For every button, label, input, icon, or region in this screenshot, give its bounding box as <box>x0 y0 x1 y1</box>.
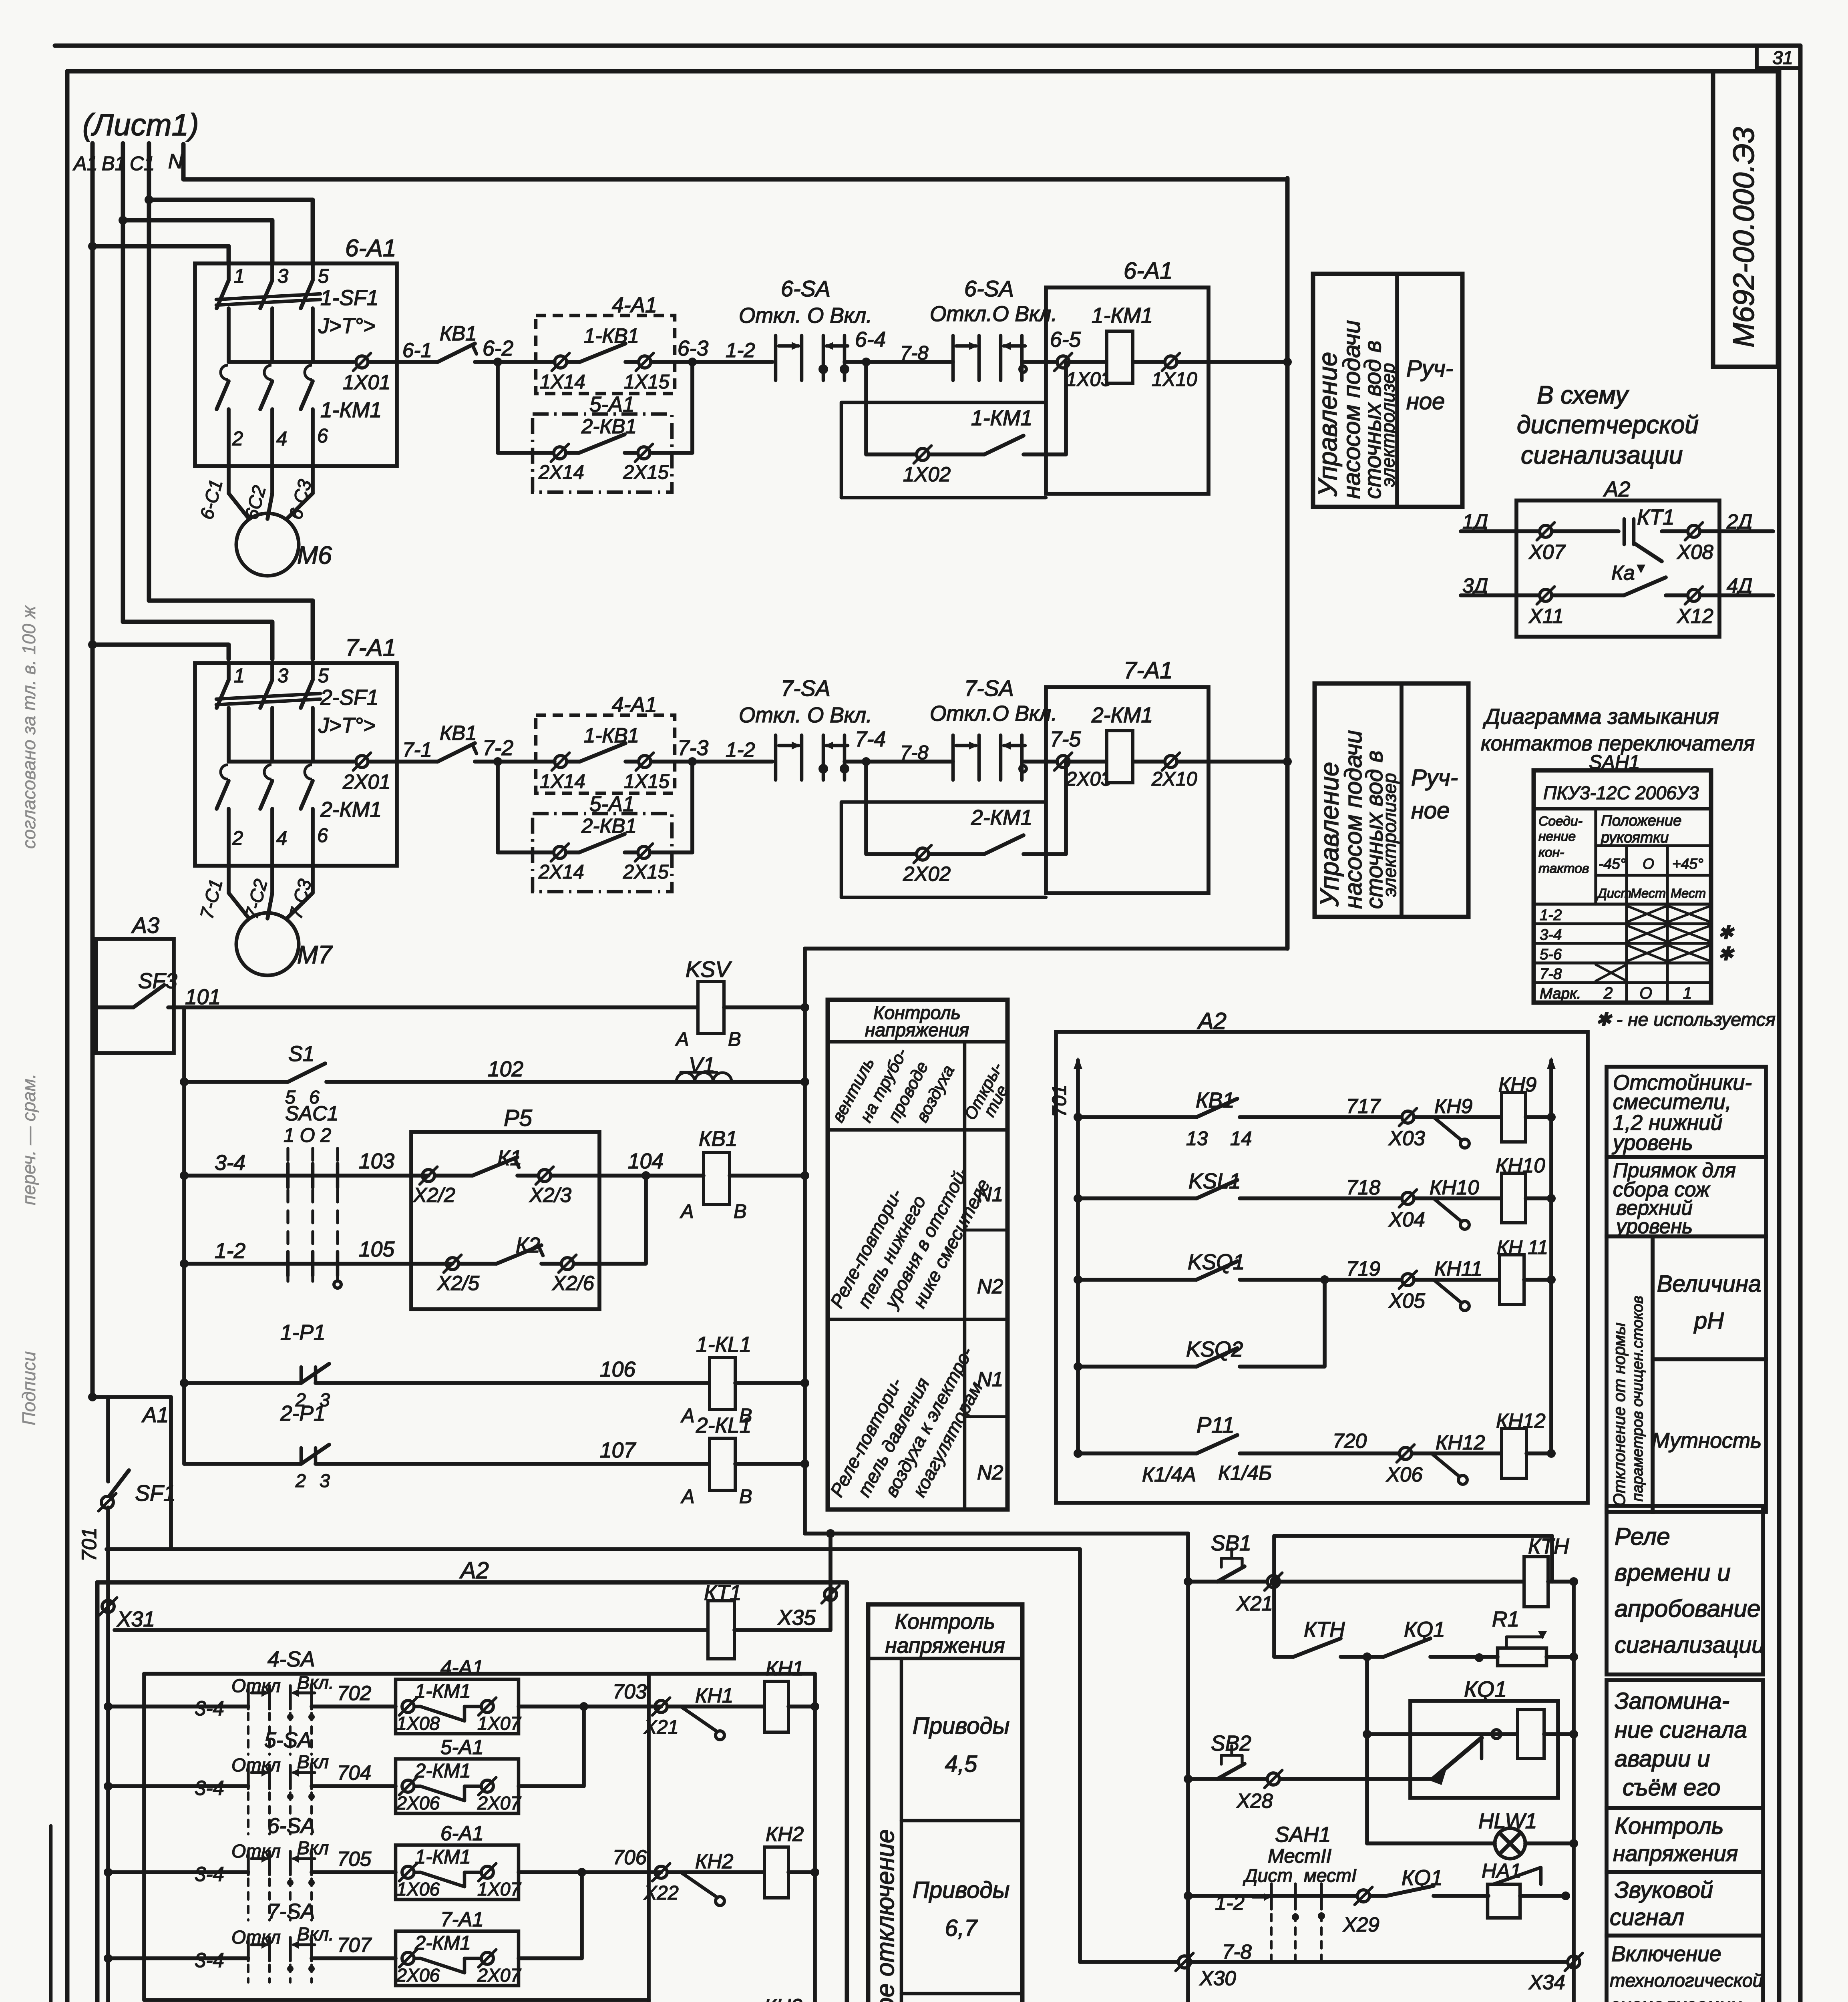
svg-text:6: 6 <box>317 825 328 846</box>
svg-text:102: 102 <box>488 1057 523 1081</box>
circuit breaker block 7-А1 <box>195 663 397 866</box>
feed A1 to 7-A1 <box>88 640 97 649</box>
terminal 2X10 <box>1165 756 1177 768</box>
svg-text:4: 4 <box>276 828 287 849</box>
info box zvukovoi signal <box>1607 1872 1763 1936</box>
svg-text:Х07: Х07 <box>1528 541 1566 563</box>
wire 106 with contact 1-P1 <box>180 1379 189 1387</box>
svg-text:719: 719 <box>1346 1257 1380 1280</box>
relay column enclosure <box>647 2000 651 2002</box>
bus C1 vertical <box>147 143 151 601</box>
svg-text:Х31: Х31 <box>116 1608 155 1631</box>
voltage control table lower <box>868 1604 1022 2002</box>
svg-text:ШМС: ШМС <box>1522 2000 1577 2002</box>
svg-text:5-SA: 5-SA <box>264 1729 312 1752</box>
svg-text:6-SA: 6-SA <box>781 276 830 301</box>
svg-text:2-Р1: 2-Р1 <box>280 1402 326 1425</box>
svg-text:N2: N2 <box>977 1275 1003 1298</box>
junction B1 to 6-A1 <box>119 216 127 225</box>
svg-text:1-КМ1: 1-КМ1 <box>1092 304 1153 328</box>
selector 4-SA and contact 4-A1 row 702 <box>104 1702 113 1711</box>
svg-text:7-А1: 7-А1 <box>1124 657 1173 683</box>
svg-text:Дист: Дист <box>1243 1865 1293 1886</box>
selector 5-SA and contact 5-A1 row 704 <box>104 1782 113 1791</box>
svg-text:2-КМ1: 2-КМ1 <box>320 798 382 822</box>
contact KSQ1 row 719 <box>1074 1275 1082 1284</box>
svg-text:местI: местI <box>1304 1865 1357 1886</box>
contactor 1-КМ1 main contacts <box>221 365 228 380</box>
svg-text:1: 1 <box>234 265 245 287</box>
svg-text:702: 702 <box>337 1682 371 1705</box>
svg-text:1-2: 1-2 <box>215 1239 245 1263</box>
svg-text:7-8: 7-8 <box>900 742 928 764</box>
svg-text:К1: К1 <box>497 1146 522 1170</box>
svg-text:2-КВ1: 2-КВ1 <box>581 814 637 837</box>
svg-text:А3: А3 <box>131 913 159 938</box>
svg-text:А: А <box>680 1201 694 1222</box>
svg-text:3-4: 3-4 <box>195 1949 224 1972</box>
breaker 1-SF1 <box>227 263 231 280</box>
wire 105 <box>180 1259 189 1268</box>
sheet number box 31 <box>1757 46 1800 68</box>
svg-text:2-КL1: 2-КL1 <box>696 1414 751 1437</box>
svg-text:4-А1: 4-А1 <box>612 693 657 717</box>
svg-text:КQ1: КQ1 <box>1404 1618 1445 1642</box>
wire 704 joins 703 <box>519 1707 584 1786</box>
svg-text:сигнализации: сигнализации <box>1521 441 1683 469</box>
svg-text:КН11: КН11 <box>1434 1257 1482 1280</box>
svg-text:Х11: Х11 <box>1528 605 1564 627</box>
svg-text:6-А1: 6-А1 <box>345 234 396 261</box>
ladder left rail <box>182 1007 186 1464</box>
svg-text:107: 107 <box>600 1439 636 1462</box>
svg-text:6: 6 <box>317 425 328 447</box>
motor М6 <box>236 513 299 576</box>
wire 7-1 with terminal 2X01 <box>229 760 354 764</box>
breaker 2-SF1 <box>227 663 231 680</box>
info column otklonenie ot normy <box>1607 1236 1653 1512</box>
svg-text:Руч-: Руч- <box>1411 765 1458 791</box>
svg-text:SAC1: SAC1 <box>285 1102 338 1125</box>
terminal X31 <box>102 1600 114 1612</box>
svg-text:706: 706 <box>613 1846 647 1869</box>
svg-text:МестII: МестII <box>1268 1845 1331 1867</box>
self-holding contact 1-КМ1 <box>866 362 915 454</box>
svg-text:КQ1: КQ1 <box>1464 1677 1507 1702</box>
svg-text:2Х06: 2Х06 <box>396 1965 440 1986</box>
wire 105 to node 104 <box>599 1176 646 1264</box>
svg-text:1X14: 1X14 <box>540 371 585 393</box>
svg-text:5: 5 <box>318 265 329 287</box>
svg-text:технологической: технологической <box>1610 1970 1763 1991</box>
svg-text:7-SA: 7-SA <box>267 1900 315 1924</box>
contactor coil 2-КМ1 <box>1107 731 1133 783</box>
relay block P5 <box>411 1132 599 1309</box>
svg-text:705: 705 <box>337 1847 372 1870</box>
svg-text:А: А <box>680 1405 695 1427</box>
svg-text:1Х07: 1Х07 <box>477 1879 522 1899</box>
svg-text:1X15: 1X15 <box>624 371 670 393</box>
svg-text:М692-00.000.Э3: М692-00.000.Э3 <box>1727 127 1760 348</box>
svg-text:Вкл.: Вкл. <box>297 1672 334 1693</box>
svg-text:5-6: 5-6 <box>1540 946 1562 963</box>
svg-text:1X14: 1X14 <box>540 771 585 792</box>
svg-text:КН9: КН9 <box>1434 1095 1472 1118</box>
contactor 2-КМ1 main contacts <box>221 765 228 779</box>
svg-text:KSV: KSV <box>686 957 732 982</box>
panel A1 outline with SF1 <box>88 1393 97 1401</box>
svg-text:SF3: SF3 <box>138 969 177 993</box>
svg-text:электролизер: электролизер <box>1377 363 1398 487</box>
wire 102 with switch S1 <box>180 1077 189 1086</box>
contact KSL1 row 718 <box>1074 1194 1082 1203</box>
motor leads <box>227 466 231 493</box>
svg-text:6-А1: 6-А1 <box>1124 258 1173 284</box>
svg-text:КВ1: КВ1 <box>440 722 477 744</box>
node 6-4 <box>862 358 871 366</box>
svg-text:А: А <box>680 1486 695 1508</box>
svg-text:Ка: Ка <box>1611 561 1635 584</box>
SAH1 contact table <box>1534 770 1711 1003</box>
svg-text:5-А1: 5-А1 <box>589 393 635 416</box>
svg-text:переч. — срам.: переч. — срам. <box>18 1073 39 1205</box>
svg-text:7-А1: 7-А1 <box>440 1908 484 1931</box>
contact K1 with terminals <box>422 1170 434 1182</box>
riser to rail with terminal X35 <box>828 1534 833 1630</box>
junction A1 to 6-A1 <box>88 242 97 251</box>
svg-text:напряжения: напряжения <box>1613 1841 1738 1866</box>
svg-text:2-КМ1: 2-КМ1 <box>414 1760 471 1782</box>
voltage control table upper <box>828 1000 1007 1510</box>
svg-text:электролизер: электролизер <box>1379 773 1400 897</box>
svg-text:104: 104 <box>628 1150 664 1173</box>
svg-text:КН10: КН10 <box>1430 1176 1479 1199</box>
svg-text:Х2/3: Х2/3 <box>529 1184 571 1206</box>
svg-text:Диаграмма замыкания: Диаграмма замыкания <box>1482 704 1719 729</box>
svg-text:N: N <box>168 150 183 173</box>
self-holding contact 2-КМ1 <box>866 762 915 854</box>
svg-text:-45°: -45° <box>1599 855 1626 872</box>
feed C1 to 7-A1 <box>149 601 313 659</box>
svg-text:Звуковой: Звуковой <box>1615 1877 1713 1903</box>
svg-text:7-2: 7-2 <box>483 736 513 760</box>
svg-text:2-КМ1: 2-КМ1 <box>971 806 1032 830</box>
svg-text:Х08: Х08 <box>1677 541 1713 563</box>
svg-text:106: 106 <box>600 1358 635 1381</box>
svg-text:нение: нение <box>1538 829 1576 844</box>
svg-text:4-SA: 4-SA <box>267 1648 315 1671</box>
svg-text:Мутность: Мутность <box>1652 1429 1762 1453</box>
svg-text:4: 4 <box>276 428 287 450</box>
svg-text:рН: рН <box>1693 1308 1724 1334</box>
svg-text:3: 3 <box>278 665 288 687</box>
junction to N riser <box>1283 358 1292 366</box>
inner switch sub-block <box>144 1672 815 1676</box>
contact closure crosses <box>1627 906 1667 922</box>
svg-text:Отклонение от нормы: Отклонение от нормы <box>1610 1323 1629 1506</box>
svg-text:1: 1 <box>1683 984 1692 1002</box>
svg-text:К2: К2 <box>516 1234 540 1257</box>
svg-text:Марк.: Марк. <box>1540 985 1581 1002</box>
svg-text:ПКУ3-12С 2006У3: ПКУ3-12С 2006У3 <box>1543 782 1699 803</box>
right signal rail <box>1572 1582 1576 2002</box>
svg-text:13: 13 <box>1186 1128 1208 1150</box>
svg-text:напряжения: напряжения <box>865 1019 969 1040</box>
svg-text:SF1: SF1 <box>135 1481 176 1506</box>
svg-text:6-4: 6-4 <box>855 328 886 352</box>
node 6-2 <box>493 358 502 366</box>
bus B1 vertical <box>121 143 125 622</box>
svg-text:1X02: 1X02 <box>903 463 951 486</box>
svg-text:А2: А2 <box>1603 478 1630 501</box>
svg-text:сигнал: сигнал <box>1610 1904 1684 1930</box>
contact KSQ2 parallel branch <box>1074 1362 1082 1371</box>
svg-text:7-3: 7-3 <box>678 736 708 760</box>
svg-text:КН2: КН2 <box>766 1823 804 1845</box>
branch to KTH contact row <box>1272 1536 1276 1657</box>
svg-text:Приводы: Приводы <box>913 1713 1010 1739</box>
svg-text:Дист: Дист <box>1597 886 1631 900</box>
svg-text:5: 5 <box>318 665 329 687</box>
svg-text:К1/4А: К1/4А <box>1142 1463 1196 1486</box>
svg-text:3: 3 <box>320 1470 330 1491</box>
svg-text:согласовано за тл. в. 100 ж: согласовано за тл. в. 100 ж <box>18 605 39 849</box>
svg-text:КН3: КН3 <box>764 1995 802 2002</box>
svg-text:3-4: 3-4 <box>195 1697 224 1720</box>
svg-text:Х12: Х12 <box>1677 605 1713 627</box>
terminal X21 and relay KH1 <box>655 1700 667 1713</box>
svg-text:1: 1 <box>234 665 245 687</box>
svg-text:5-А1: 5-А1 <box>589 792 635 816</box>
info cell velichina pH <box>1653 1236 1766 1359</box>
svg-text:М6: М6 <box>297 541 332 569</box>
svg-text:1Х07: 1Х07 <box>477 1713 522 1734</box>
junction to N riser <box>1283 757 1292 766</box>
svg-text:кон-: кон- <box>1538 845 1564 860</box>
svg-text:3: 3 <box>278 265 288 287</box>
svg-text:R1: R1 <box>1492 1608 1519 1631</box>
svg-text:времени и: времени и <box>1615 1559 1731 1586</box>
terminal X30 row 7-8 <box>1080 1960 1177 1964</box>
svg-text:Х28: Х28 <box>1236 1789 1273 1812</box>
svg-text:Х2/5: Х2/5 <box>437 1272 480 1294</box>
title stamp M692-00.000.E3 vertical <box>1713 71 1778 367</box>
svg-text:6-SA: 6-SA <box>267 1814 315 1838</box>
svg-text:Величина: Величина <box>1657 1271 1761 1297</box>
svg-text:14: 14 <box>1230 1128 1252 1150</box>
svg-text:N1: N1 <box>977 1368 1003 1391</box>
svg-text:2Х07: 2Х07 <box>477 1965 522 1986</box>
svg-text:3-4: 3-4 <box>195 1863 224 1885</box>
terminal 1X03 <box>1057 356 1069 368</box>
svg-text:1-КВ1: 1-КВ1 <box>584 324 639 347</box>
svg-text:1-КВ1: 1-КВ1 <box>584 724 639 747</box>
feed B1 to 7-A1 <box>123 622 272 659</box>
svg-text:7-SA: 7-SA <box>781 676 830 701</box>
svg-text:Откл.О Вкл.: Откл.О Вкл. <box>930 702 1057 726</box>
info box rele vremeni <box>1607 1506 1763 1674</box>
svg-text:✱ - не используется: ✱ - не используется <box>1596 1009 1776 1030</box>
svg-text:7-8: 7-8 <box>1540 965 1562 983</box>
junction C1 to 6-A1 <box>145 195 153 204</box>
border frame <box>55 44 1800 48</box>
svg-text:1-КL1: 1-КL1 <box>696 1333 751 1357</box>
contactor coil 1-КМ1 <box>1107 331 1133 383</box>
svg-text:ние сигнала: ние сигнала <box>1615 1717 1747 1743</box>
svg-text:В: В <box>734 1201 747 1222</box>
info box kontrol napryazheniya <box>1607 1808 1763 1872</box>
svg-text:7-8: 7-8 <box>1222 1940 1252 1963</box>
svg-text:КВ1: КВ1 <box>440 322 477 345</box>
svg-text:напряжения: напряжения <box>885 1634 1005 1658</box>
svg-text:Х35: Х35 <box>777 1606 816 1630</box>
bus N vertical and horizontal <box>183 144 1287 179</box>
svg-text:(Лист1): (Лист1) <box>82 108 199 142</box>
svg-text:720: 720 <box>1333 1429 1367 1452</box>
block 5-A1 auxiliary contact 2-KB1 <box>533 414 672 492</box>
svg-text:6-А1: 6-А1 <box>440 1822 484 1845</box>
contactor coil box 7-А1 <box>1046 687 1209 893</box>
svg-text:НА1: НА1 <box>1482 1859 1521 1882</box>
svg-text:1 О 2: 1 О 2 <box>284 1125 331 1146</box>
rail 701 down <box>106 1508 110 2002</box>
svg-text:1-SF1: 1-SF1 <box>320 286 378 310</box>
svg-text:Вкл.: Вкл. <box>297 1924 334 1944</box>
svg-text:1Х08: 1Х08 <box>396 1713 440 1734</box>
rail to X35 riser <box>805 1532 1188 1536</box>
svg-text:Х2/6: Х2/6 <box>552 1272 595 1294</box>
svg-text:1-КМ1: 1-КМ1 <box>415 1680 471 1702</box>
svg-text:Включение: Включение <box>1611 1942 1721 1966</box>
svg-text:2X10: 2X10 <box>1151 768 1197 790</box>
svg-text:Мест: Мест <box>1631 886 1666 900</box>
relay rail with arrow <box>813 1674 817 2002</box>
svg-text:J>Т°>: J>Т°> <box>318 714 376 738</box>
terminal 2X03 <box>1057 756 1069 768</box>
svg-text:А1: А1 <box>141 1403 169 1427</box>
svg-text:Х30: Х30 <box>1199 1967 1236 1990</box>
svg-text:1X03: 1X03 <box>1066 369 1112 390</box>
wire 103 <box>180 1171 189 1180</box>
svg-text:1-КМ1: 1-КМ1 <box>320 398 382 422</box>
svg-text:А2: А2 <box>459 1558 489 1584</box>
svg-text:1Х06: 1Х06 <box>396 1879 440 1899</box>
svg-text:диспетчерской: диспетчерской <box>1517 411 1699 439</box>
svg-text:Х04: Х04 <box>1388 1208 1425 1231</box>
svg-text:Х2/2: Х2/2 <box>413 1184 455 1206</box>
svg-text:6-5: 6-5 <box>1050 328 1081 352</box>
svg-text:О: О <box>1639 984 1652 1002</box>
svg-text:КН12: КН12 <box>1436 1431 1485 1454</box>
svg-text:О: О <box>1643 855 1654 872</box>
self-holding contact 1-КМ1 enclosure <box>841 402 1046 498</box>
svg-text:В: В <box>739 1486 752 1508</box>
interlock contact KB1 <box>438 743 475 762</box>
rail 701 inside A2 with arrow <box>1076 1060 1080 1453</box>
svg-text:103: 103 <box>359 1150 394 1173</box>
svg-text:КТН: КТН <box>1528 1535 1569 1558</box>
contact K2 with terminals <box>446 1258 458 1270</box>
svg-text:Х06: Х06 <box>1386 1463 1423 1486</box>
svg-text:Контроль: Контроль <box>895 1610 995 1634</box>
svg-text:3-4: 3-4 <box>1540 926 1562 943</box>
wire to selector <box>692 760 772 764</box>
svg-text:7-4: 7-4 <box>855 728 886 751</box>
svg-text:6-2: 6-2 <box>483 337 513 360</box>
svg-text:1X01: 1X01 <box>343 371 390 394</box>
wire from A1 box to SB rail <box>1078 1549 1082 1962</box>
svg-text:Х21: Х21 <box>643 1717 679 1738</box>
svg-text:К1/4Б: К1/4Б <box>1218 1461 1272 1484</box>
svg-text:Откл. О Вкл.: Откл. О Вкл. <box>739 704 872 727</box>
svg-text:Мест: Мест <box>1671 886 1706 900</box>
loop wire over KTH coil <box>1274 1536 1552 1582</box>
svg-text:Аварийное отключение: Аварийное отключение <box>871 1829 899 2002</box>
svg-text:2X02: 2X02 <box>903 862 951 885</box>
svg-text:2: 2 <box>295 1470 306 1491</box>
svg-text:707: 707 <box>337 1934 372 1956</box>
svg-text:2X15: 2X15 <box>623 861 669 883</box>
wire 101 <box>168 1005 698 1009</box>
svg-text:6,7: 6,7 <box>945 1915 978 1941</box>
svg-text:5-А1: 5-А1 <box>440 1736 484 1759</box>
motor leads <box>227 866 231 893</box>
relay coil KQ1 <box>1518 1710 1544 1759</box>
svg-text:717: 717 <box>1346 1095 1381 1118</box>
svg-text:N2: N2 <box>977 1461 1003 1484</box>
svg-text:Х34: Х34 <box>1528 1971 1565 1994</box>
svg-text:1-2: 1-2 <box>726 738 755 761</box>
svg-text:КН1: КН1 <box>695 1684 733 1707</box>
svg-text:Положение: Положение <box>1601 812 1681 829</box>
svg-text:31: 31 <box>1772 47 1793 68</box>
svg-text:ное: ное <box>1406 388 1445 414</box>
svg-text:КН2: КН2 <box>695 1850 733 1873</box>
svg-text:рукоятки: рукоятки <box>1601 829 1669 846</box>
interlock contact KB1 <box>438 344 475 362</box>
svg-text:SАН1: SАН1 <box>1275 1823 1331 1847</box>
svg-text:КН1: КН1 <box>766 1657 804 1680</box>
svg-text:2-КМ1: 2-КМ1 <box>414 1932 471 1954</box>
svg-text:718: 718 <box>1346 1176 1381 1199</box>
svg-text:6-SA: 6-SA <box>964 276 1014 301</box>
bus A1 vertical <box>90 143 95 1397</box>
svg-text:2X03: 2X03 <box>1066 768 1112 790</box>
wire 107 with contact 2-P1 <box>184 1462 301 1466</box>
svg-text:Приводы: Приводы <box>913 1877 1010 1903</box>
svg-text:Соеди-: Соеди- <box>1538 814 1583 829</box>
motor М7 <box>236 913 299 975</box>
svg-text:7-1: 7-1 <box>402 738 432 761</box>
N riser to coil returns <box>1285 178 1290 949</box>
svg-text:2Х06: 2Х06 <box>396 1793 440 1813</box>
svg-text:Откл.О Вкл.: Откл.О Вкл. <box>930 302 1057 326</box>
wire 707 joins 706 <box>519 1872 582 1958</box>
svg-text:Х22: Х22 <box>643 1882 679 1904</box>
info box otstoiniki-smesiteli <box>1607 1067 1766 1157</box>
svg-text:2-SF1: 2-SF1 <box>320 686 378 710</box>
svg-text:6-3: 6-3 <box>678 337 708 360</box>
node 7-3 <box>688 757 697 766</box>
svg-text:7-SA: 7-SA <box>964 676 1014 701</box>
svg-text:Р11: Р11 <box>1196 1413 1235 1437</box>
ladder right rail <box>803 949 807 1534</box>
svg-text:М7: М7 <box>297 941 333 969</box>
wire into KQ1 coil <box>1365 1657 1369 1843</box>
svg-text:Подписи: Подписи <box>18 1351 39 1425</box>
svg-text:Х21: Х21 <box>1236 1592 1273 1615</box>
sheet edge line bottom left <box>49 1826 53 2002</box>
